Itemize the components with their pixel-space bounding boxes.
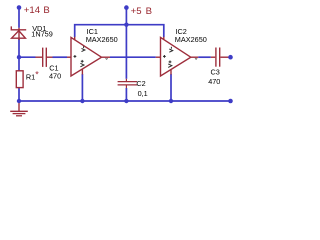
svg-text:0,1: 0,1 <box>138 89 148 98</box>
svg-text:C2: C2 <box>136 79 145 88</box>
svg-text:1N759: 1N759 <box>31 29 53 38</box>
svg-text:+5 В: +5 В <box>131 6 152 17</box>
svg-text:470: 470 <box>208 77 220 86</box>
svg-text:MAX2650: MAX2650 <box>175 35 207 44</box>
svg-text:R1*: R1* <box>26 70 39 82</box>
svg-text:C3: C3 <box>211 68 220 77</box>
svg-text:+14 В: +14 В <box>24 5 50 16</box>
svg-text:470: 470 <box>49 72 61 81</box>
svg-text:MAX2650: MAX2650 <box>86 35 118 44</box>
